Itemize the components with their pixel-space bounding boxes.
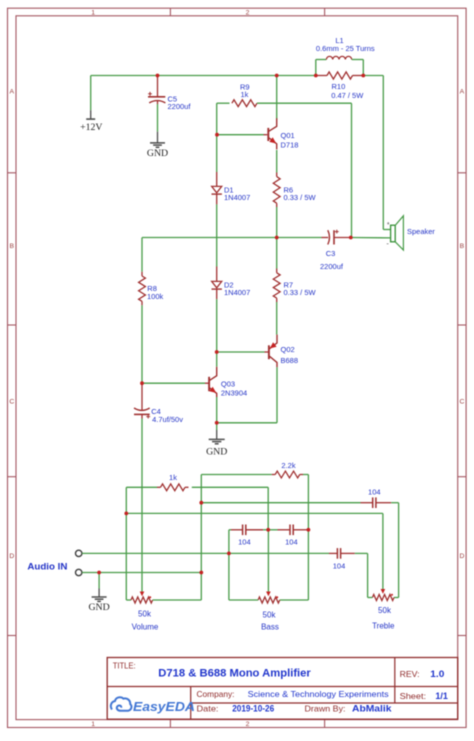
svg-text:B688: B688 xyxy=(281,356,299,365)
svg-text:104: 104 xyxy=(285,538,298,547)
svg-text:2200uf: 2200uf xyxy=(320,262,344,271)
svg-text:1: 1 xyxy=(91,721,95,728)
svg-text:104: 104 xyxy=(238,538,251,547)
svg-text:Q01: Q01 xyxy=(281,131,295,140)
svg-text:50k: 50k xyxy=(263,611,277,620)
svg-text:Science & Technology Experimen: Science & Technology Experiments xyxy=(248,690,389,699)
svg-text:50k: 50k xyxy=(138,610,152,619)
svg-text:B: B xyxy=(10,243,15,250)
svg-text:Volume: Volume xyxy=(132,623,159,632)
svg-text:1.0: 1.0 xyxy=(430,669,444,680)
svg-text:2N3904: 2N3904 xyxy=(221,389,247,398)
svg-text:1k: 1k xyxy=(169,473,177,482)
svg-text:0.33 / 5W: 0.33 / 5W xyxy=(284,193,317,202)
svg-text:D: D xyxy=(9,553,14,560)
svg-text:GND: GND xyxy=(147,148,168,159)
svg-text:D: D xyxy=(459,553,464,560)
svg-text:2019-10-26: 2019-10-26 xyxy=(232,704,274,714)
svg-text:1k: 1k xyxy=(241,90,249,99)
svg-text:GND: GND xyxy=(206,447,227,458)
svg-text:104: 104 xyxy=(368,487,381,496)
svg-text:TITLE:: TITLE: xyxy=(113,662,136,671)
svg-text:1/1: 1/1 xyxy=(435,691,448,702)
svg-text:Q03: Q03 xyxy=(221,380,235,389)
svg-text:Company:: Company: xyxy=(197,690,235,699)
svg-text:50k: 50k xyxy=(378,606,392,615)
svg-text:Audio IN: Audio IN xyxy=(27,562,67,572)
svg-text:Date:: Date: xyxy=(197,704,219,714)
svg-text:2: 2 xyxy=(246,9,250,16)
svg-text:REV:: REV: xyxy=(400,669,420,679)
svg-text:B: B xyxy=(460,243,465,250)
svg-text:Sheet:: Sheet: xyxy=(400,691,427,701)
svg-text:*: * xyxy=(387,222,390,229)
svg-text:100k: 100k xyxy=(147,292,164,301)
svg-text:104: 104 xyxy=(333,562,346,571)
svg-text:1N4007: 1N4007 xyxy=(224,193,250,202)
svg-text:2.2k: 2.2k xyxy=(281,461,295,470)
svg-text:Bass: Bass xyxy=(261,623,279,632)
svg-text:C: C xyxy=(459,399,464,406)
svg-text:0.47 / 5W: 0.47 / 5W xyxy=(331,91,364,100)
svg-text:Speaker: Speaker xyxy=(407,227,435,236)
svg-text:1N4007: 1N4007 xyxy=(224,288,250,297)
svg-text:A: A xyxy=(460,89,465,96)
svg-text:2200uf: 2200uf xyxy=(168,102,192,111)
svg-text:Q02: Q02 xyxy=(281,345,295,354)
svg-text:Treble: Treble xyxy=(372,622,395,631)
svg-text:0.33 / 5W: 0.33 / 5W xyxy=(284,288,317,297)
svg-text:0.6mm - 25 Turns: 0.6mm - 25 Turns xyxy=(316,44,375,53)
svg-text:D718: D718 xyxy=(281,141,299,150)
svg-text:D718 & B688 Mono Amplifier: D718 & B688 Mono Amplifier xyxy=(158,668,311,680)
svg-text:C: C xyxy=(9,399,14,406)
svg-text:EasyEDA: EasyEDA xyxy=(133,699,195,714)
svg-text:1: 1 xyxy=(91,9,95,16)
svg-text:AbMalik: AbMalik xyxy=(352,704,392,714)
svg-text:4.7uf/50v: 4.7uf/50v xyxy=(152,415,183,424)
svg-text:R10: R10 xyxy=(332,82,346,91)
svg-text:2: 2 xyxy=(246,721,250,728)
svg-text:Drawn By:: Drawn By: xyxy=(305,704,346,714)
svg-text:C3: C3 xyxy=(326,249,336,258)
svg-text:+12V: +12V xyxy=(80,122,102,133)
svg-text:GND: GND xyxy=(88,602,109,613)
svg-text:A: A xyxy=(10,89,15,96)
